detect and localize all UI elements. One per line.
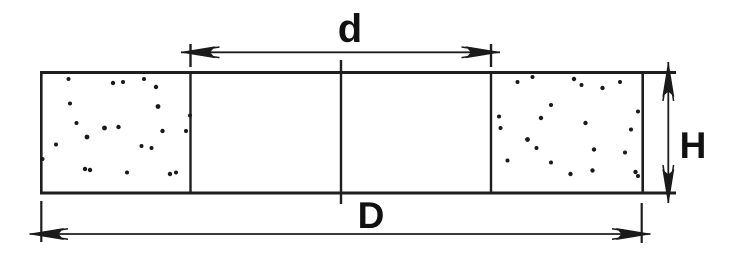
bore right line — [490, 72, 492, 193]
abrasive speckles left section — [41, 77, 193, 176]
svg-text:D: D — [358, 195, 385, 236]
arrowhead H top (points up) — [663, 65, 673, 95]
wheel body bottom edge (extended right as H extension line) — [40, 192, 676, 195]
wheel body top edge (extended right as H extension line) — [40, 71, 676, 74]
dimension line D — [30, 233, 651, 235]
extension line D left — [40, 201, 42, 242]
wheel body left edge — [40, 71, 43, 195]
arrowhead d right (points right) — [468, 47, 498, 57]
wheel body right edge — [641, 71, 644, 195]
svg-text:H: H — [680, 125, 707, 166]
bore left line — [189, 72, 191, 193]
svg-text:d: d — [338, 7, 362, 51]
dimension line d — [181, 51, 500, 53]
center line — [340, 60, 342, 204]
d extension tick right — [490, 44, 492, 67]
arrowhead D right (points right) — [618, 229, 648, 239]
arrowhead H bottom (points down) — [663, 171, 673, 201]
d extension tick left — [189, 44, 191, 67]
abrasive speckles right section — [497, 75, 640, 178]
dimension line H — [667, 62, 669, 203]
arrowhead d left (points left) — [184, 47, 214, 57]
extension line D right — [641, 203, 643, 243]
arrowhead D left (points left) — [32, 229, 62, 239]
